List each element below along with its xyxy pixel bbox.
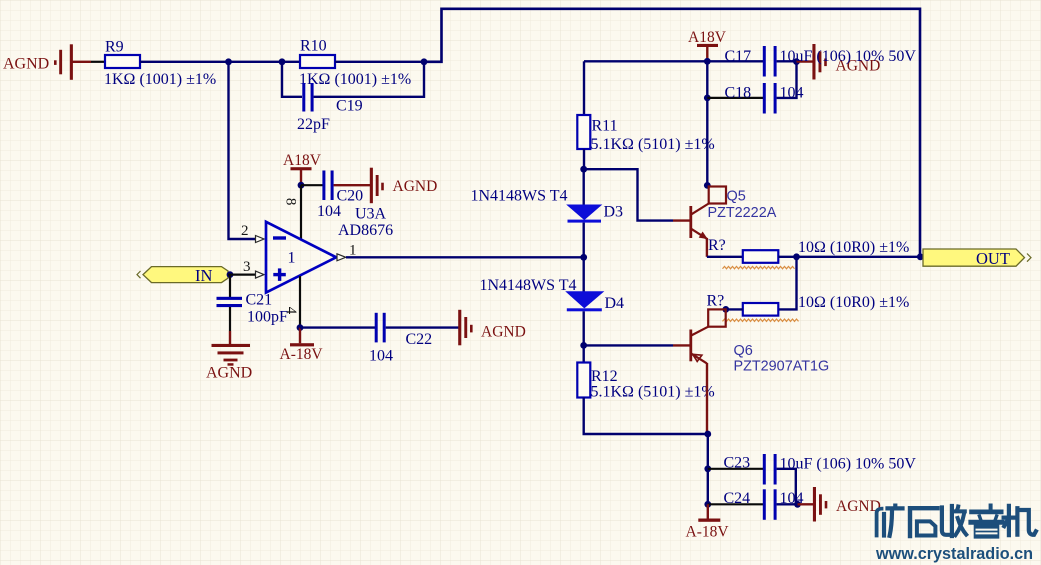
svg-text:R?: R? bbox=[708, 237, 726, 254]
svg-text:AD8676: AD8676 bbox=[338, 222, 393, 239]
svg-text:1KΩ (1001) ±1%: 1KΩ (1001) ±1% bbox=[299, 71, 411, 88]
svg-text:www.crystalradio.cn: www.crystalradio.cn bbox=[875, 545, 1033, 563]
svg-text:1N4148WS T4: 1N4148WS T4 bbox=[480, 277, 577, 294]
svg-text:AGND: AGND bbox=[393, 178, 438, 195]
wire C21 to ground bbox=[229, 307, 231, 331]
diode D3 1N4148WS bbox=[471, 188, 624, 223]
watermark logo 矿石收音机 bbox=[877, 506, 1036, 538]
svg-text:10Ω (10R0) ±1%: 10Ω (10R0) ±1% bbox=[798, 294, 909, 311]
svg-text:AGND: AGND bbox=[836, 498, 881, 515]
resistor R? (upper 10R) bbox=[708, 237, 909, 263]
svg-text:R?: R? bbox=[707, 293, 725, 310]
svg-text:C23: C23 bbox=[724, 455, 751, 472]
svg-text:AGND: AGND bbox=[481, 324, 526, 341]
resistor R11 bbox=[577, 115, 714, 153]
svg-text:C24: C24 bbox=[724, 490, 751, 507]
wire R? to OUT node bbox=[778, 256, 920, 258]
svg-text:C21: C21 bbox=[246, 292, 273, 309]
svg-text:C18: C18 bbox=[725, 85, 752, 102]
wire Q6 emitter down to bottom rail bbox=[706, 363, 708, 434]
svg-text:R11: R11 bbox=[592, 118, 618, 135]
svg-text:104: 104 bbox=[317, 203, 341, 220]
svg-text:U3A: U3A bbox=[355, 206, 387, 223]
svg-text:A-18V: A-18V bbox=[280, 346, 324, 363]
ground AGND (right of C20) bbox=[370, 168, 437, 204]
ground AGND (below C21) bbox=[206, 331, 252, 382]
wire junction to Q6 base bbox=[584, 344, 673, 346]
wire R9 to R10 bbox=[140, 61, 300, 63]
error squiggle under upper R? bbox=[723, 266, 795, 268]
svg-text:10uF (106) 10% 50V: 10uF (106) 10% 50V bbox=[780, 48, 917, 65]
ground AGND (right of C22) bbox=[458, 310, 526, 346]
port IN bbox=[137, 266, 228, 285]
power A18V (op-amp pin 8) bbox=[283, 152, 322, 185]
svg-text:AGND: AGND bbox=[206, 365, 252, 382]
wire AGND to R9 bbox=[91, 61, 105, 63]
node junction C24/AGND bbox=[794, 501, 801, 508]
wire R10 right to top rail corner bbox=[335, 61, 424, 63]
svg-text:8: 8 bbox=[283, 198, 299, 206]
capacitor C21 bbox=[217, 275, 289, 326]
wire C19 to right node bbox=[314, 62, 424, 97]
wire node to D4 bbox=[583, 257, 585, 292]
capacitor C20 bbox=[301, 171, 363, 221]
node junction D4/R12/Q6 base bbox=[580, 342, 587, 349]
wire lower R? to Q6 collector bbox=[726, 308, 743, 310]
node junction C18 row bbox=[704, 95, 711, 102]
wire junction down to R12 bbox=[583, 345, 585, 362]
svg-text:2: 2 bbox=[241, 223, 249, 239]
port OUT bbox=[923, 249, 1031, 268]
error squiggle under lower R? bbox=[723, 319, 799, 321]
capacitor C19 bbox=[297, 83, 363, 133]
node junction IN/C21/pin3 bbox=[227, 271, 234, 278]
svg-text:100pF: 100pF bbox=[247, 309, 288, 326]
svg-text:C20: C20 bbox=[337, 188, 364, 205]
capacitor C22 bbox=[300, 313, 432, 365]
resistor R10 bbox=[299, 38, 411, 89]
node junction C17/C18/AGND bbox=[793, 58, 800, 65]
svg-text:D3: D3 bbox=[604, 204, 624, 221]
svg-text:A18V: A18V bbox=[283, 152, 322, 169]
svg-text:5.1KΩ (5101) ±1%: 5.1KΩ (5101) ±1% bbox=[591, 136, 715, 153]
wire C20 to AGND bbox=[334, 184, 371, 186]
capacitor C17 bbox=[725, 46, 777, 77]
svg-text:4: 4 bbox=[283, 307, 299, 315]
pin 2 arrow bbox=[241, 223, 264, 243]
resistor R? (lower 10R) bbox=[707, 293, 910, 316]
wire IN to pin 3 bbox=[228, 274, 256, 276]
node junction C24 row bbox=[704, 501, 711, 508]
svg-text:R10: R10 bbox=[300, 38, 327, 55]
svg-text:AGND: AGND bbox=[3, 56, 49, 73]
transistor Q5 PZT2222A bbox=[673, 187, 777, 240]
svg-text:Q5: Q5 bbox=[727, 189, 746, 205]
capacitor C18 bbox=[707, 83, 803, 114]
svg-text:10uF (106) 10% 50V: 10uF (106) 10% 50V bbox=[780, 456, 917, 473]
wire bottom rail down to A-18V bbox=[707, 434, 709, 504]
wire R12 to bottom rail bbox=[584, 398, 708, 435]
power A-18V (op-amp pin 4) bbox=[280, 328, 324, 363]
wire C19 branch bbox=[282, 62, 302, 97]
svg-text:R12: R12 bbox=[591, 368, 618, 385]
wire feedback down to pin 2 bbox=[229, 62, 257, 239]
wire down to lower R? bbox=[778, 257, 796, 310]
ground AGND (bottom right) bbox=[777, 487, 881, 522]
pin 3 arrow bbox=[243, 259, 264, 278]
node junction C19 left bbox=[279, 58, 286, 65]
ground AGND (left of R9) bbox=[3, 44, 91, 80]
wire pin 4 bbox=[299, 276, 301, 328]
node junction Q6 collector box bbox=[722, 306, 729, 313]
wire C23 down to C24 node bbox=[777, 469, 796, 505]
node junction pin4/A-18V/C22 bbox=[297, 324, 304, 331]
svg-text:C17: C17 bbox=[725, 48, 752, 65]
wire emitter to R? bbox=[707, 256, 743, 258]
svg-text:1KΩ (1001) ±1%: 1KΩ (1001) ±1% bbox=[104, 71, 216, 88]
node junction Q5 collector bbox=[704, 182, 711, 189]
wire D4 to lower junction bbox=[583, 311, 585, 345]
wire rail down to R11 bbox=[583, 61, 585, 115]
svg-text:Q6: Q6 bbox=[734, 343, 753, 359]
svg-text:3: 3 bbox=[243, 259, 251, 275]
wire op-amp output to diode node bbox=[346, 256, 584, 258]
transistor Q6 PZT2907AT1G bbox=[673, 309, 829, 374]
op-amp U3A AD8676 bbox=[266, 206, 393, 293]
wire junction to Q5 base bbox=[584, 169, 673, 220]
node junction OUT bbox=[917, 253, 924, 260]
svg-text:1: 1 bbox=[288, 250, 296, 267]
wire Q5 emitter down bbox=[706, 238, 708, 257]
node junction R11/D3/Q5 base bbox=[580, 166, 587, 173]
power A18V (top rail) bbox=[688, 29, 727, 61]
wire junction down to D3 bbox=[583, 169, 585, 205]
wire top feedback rail to OUT bbox=[424, 9, 920, 257]
svg-text:22pF: 22pF bbox=[297, 116, 330, 133]
node junction pin8/C20 bbox=[298, 182, 305, 189]
wire C17 to AGND node bbox=[777, 60, 797, 62]
wire A18V rail down to Q5 bbox=[706, 61, 708, 185]
wire R11 to junction bbox=[583, 149, 585, 169]
svg-text:C22: C22 bbox=[406, 331, 433, 348]
svg-text:C19: C19 bbox=[336, 98, 363, 115]
svg-text:1N4148WS T4: 1N4148WS T4 bbox=[471, 188, 568, 205]
node junction bottom rail bbox=[704, 431, 711, 438]
node junction R10/C19 right bbox=[421, 58, 428, 65]
resistor R12 bbox=[577, 363, 714, 401]
svg-text:D4: D4 bbox=[605, 295, 625, 312]
svg-text:R9: R9 bbox=[105, 39, 124, 56]
capacitor C24 bbox=[708, 489, 804, 520]
op-amp output arrow pin 1 bbox=[337, 243, 357, 261]
svg-text:5.1KΩ (5101) ±1%: 5.1KΩ (5101) ±1% bbox=[591, 384, 715, 401]
svg-text:A-18V: A-18V bbox=[686, 524, 730, 541]
capacitor C23 bbox=[708, 454, 917, 485]
svg-text:A18V: A18V bbox=[688, 29, 727, 46]
resistor R9 bbox=[104, 39, 216, 89]
ground AGND (top right) bbox=[797, 44, 881, 80]
node junction C23 row bbox=[704, 465, 711, 472]
node junction R9/R10/feedback bbox=[225, 58, 232, 65]
wire D3 to output node bbox=[583, 223, 585, 258]
svg-text:PZT2907AT1G: PZT2907AT1G bbox=[734, 359, 830, 375]
power A-18V (bottom) bbox=[686, 504, 730, 540]
node junction upper R? output bbox=[793, 253, 800, 260]
svg-text:OUT: OUT bbox=[976, 249, 1010, 268]
svg-text:10Ω (10R0) ±1%: 10Ω (10R0) ±1% bbox=[798, 239, 909, 256]
svg-text:IN: IN bbox=[195, 266, 212, 285]
svg-text:PZT2222A: PZT2222A bbox=[708, 205, 777, 221]
node junction A18V rail bbox=[704, 58, 711, 65]
svg-text:104: 104 bbox=[369, 348, 393, 365]
wire C22 to AGND bbox=[386, 326, 460, 328]
wire A18V rail horizontal bbox=[584, 60, 763, 62]
wire C18 up to AGND node bbox=[777, 63, 797, 98]
wire pin 8 bbox=[300, 185, 302, 240]
node junction opamp out/D3/D4 bbox=[580, 254, 587, 261]
diode D4 1N4148WS bbox=[480, 277, 625, 312]
